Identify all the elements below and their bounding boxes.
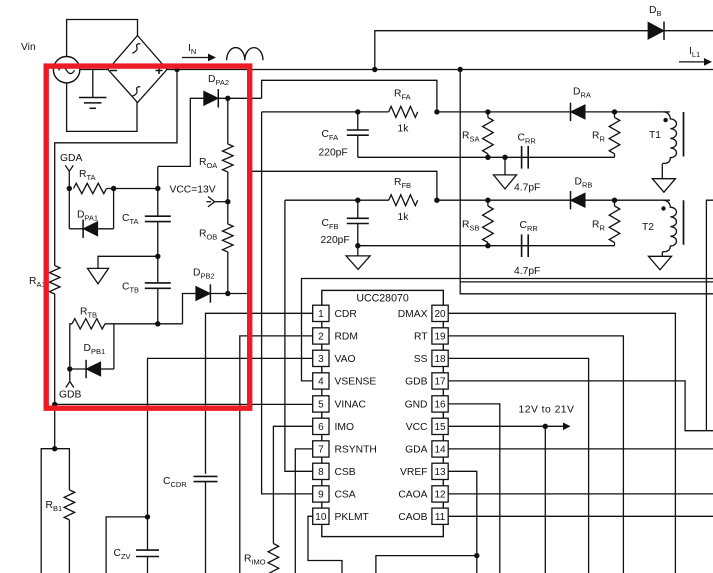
resistor RTA (74, 183, 107, 193)
bridge minus label (110, 70, 117, 72)
ground under CTA (88, 268, 109, 284)
pin 19 RT (432, 328, 448, 344)
svg-text:10: 10 (315, 512, 327, 523)
wire CAOB net (448, 515, 713, 517)
svg-text:CAOA: CAOA (398, 490, 427, 501)
wire row B feed (250, 171, 437, 200)
svg-text:13: 13 (434, 467, 446, 478)
diode DRB (571, 193, 586, 207)
bridge plus label (156, 70, 163, 72)
diode DPA1 (83, 222, 98, 236)
svg-text:VAO: VAO (335, 354, 356, 365)
wire DPA1 left leg (68, 189, 70, 229)
svg-text:19: 19 (434, 332, 446, 343)
ground under T1 (652, 179, 675, 193)
svg-text:T1: T1 (649, 130, 661, 141)
svg-text:VINAC: VINAC (335, 400, 367, 411)
svg-text:CSA: CSA (335, 490, 356, 501)
svg-text:16: 16 (434, 400, 446, 411)
svg-text:GDA: GDA (405, 445, 427, 456)
wire RA1 down to RB1 (54, 404, 56, 448)
wire RSYNTH net (295, 449, 312, 573)
diode DB (648, 22, 664, 39)
svg-text:RSYNTH: RSYNTH (335, 445, 377, 456)
wire VREF net (448, 471, 477, 573)
wire VAO net (148, 358, 313, 517)
wire T1 to ground (661, 164, 663, 179)
svg-text:4.7pF: 4.7pF (514, 266, 540, 277)
wire DPA2 cathode (218, 97, 261, 99)
svg-text:4: 4 (318, 377, 324, 388)
junction CTA bottom (155, 254, 160, 259)
wire RFB row left (285, 199, 389, 201)
capacitor CCDR (194, 475, 218, 477)
junction rail-bridge (174, 67, 179, 72)
capacitor CFA (357, 112, 359, 130)
wire hidden under highlight (249, 171, 251, 293)
svg-text:12: 12 (434, 490, 446, 501)
resistor RB1 (55, 449, 70, 490)
pin 5 VINAC (313, 396, 329, 412)
pin 8 CSB (313, 463, 329, 479)
wire bridge plus drop (55, 70, 177, 266)
junction RTA left (67, 186, 72, 191)
junction rail-DB (372, 67, 377, 72)
wire T2 right branch (706, 200, 713, 431)
svg-text:9: 9 (318, 490, 324, 501)
wire DPA1 connections (69, 228, 83, 230)
svg-text:IMO: IMO (335, 422, 354, 433)
svg-text:7: 7 (318, 445, 324, 456)
bridge rectifier BR1 (108, 36, 167, 103)
pin 18 SS (432, 350, 448, 366)
junction RB1 split (52, 446, 57, 451)
svg-text:6: 6 (318, 422, 324, 433)
wire CAOA net (448, 493, 713, 495)
wire row A top (437, 111, 670, 113)
wire row A bottom (358, 156, 615, 158)
capacitor CFB (357, 200, 359, 218)
svg-text:2: 2 (318, 332, 324, 343)
wire to ground branch (98, 256, 158, 268)
svg-text:1k: 1k (398, 212, 410, 223)
wire VCC net (448, 425, 545, 427)
resistor RIMO (268, 544, 279, 573)
svg-text:1k: 1k (398, 124, 410, 135)
junction ground row A (502, 155, 507, 160)
junction RFA left (355, 109, 360, 114)
svg-text:GDA: GDA (60, 153, 82, 164)
pin 1 CDR (313, 305, 329, 321)
wire VREF branch (376, 556, 477, 573)
svg-text:4.7pF: 4.7pF (514, 183, 540, 194)
wire GDB net (448, 381, 713, 431)
resistor ROB (227, 202, 229, 224)
junction CTB bottom (155, 321, 160, 326)
resistor RSB (483, 206, 494, 243)
svg-text:5: 5 (318, 400, 324, 411)
wire SS net (448, 358, 588, 573)
junction RFB right (434, 198, 439, 203)
pin 12 CAOA (432, 486, 448, 502)
wire VINAC to pin5 (55, 403, 313, 405)
AC source V1 (53, 56, 79, 82)
svg-text:15: 15 (434, 422, 446, 433)
wire main rail (167, 69, 713, 71)
junction CFB bottom (355, 243, 360, 248)
ground under T2 (649, 256, 672, 270)
svg-text:Vin: Vin (21, 42, 36, 53)
wire to diode DB (375, 31, 713, 70)
arrow GDA (65, 165, 69, 171)
resistor RFA (389, 106, 418, 117)
arrow IN (182, 57, 209, 59)
wire DPB2 cathode (210, 293, 250, 295)
diode DPB1 (86, 362, 101, 376)
wire ROB to DPB2 (227, 252, 229, 294)
svg-text:CAOB: CAOB (398, 512, 427, 523)
arrow VCC supply (545, 425, 564, 427)
wire IMO net (273, 426, 312, 543)
wire RSA stubs (487, 112, 489, 118)
inductor L1 (227, 48, 263, 61)
IC U1 UCC28070 body (322, 290, 444, 536)
wire net y282 (460, 281, 713, 283)
svg-text:17: 17 (434, 377, 446, 388)
svg-text:VREF: VREF (400, 467, 427, 478)
arrow IL1 (679, 61, 705, 63)
pin 3 VAO (313, 350, 329, 366)
pin 20 DMAX (432, 305, 448, 321)
svg-text:14: 14 (434, 445, 446, 456)
svg-text:VCC=13V: VCC=13V (170, 185, 216, 196)
wire RTA right (107, 188, 158, 190)
svg-text:CDR: CDR (335, 309, 357, 320)
capacitor CTA (157, 166, 159, 216)
arrow GDB (69, 369, 71, 382)
wire CDR net (206, 313, 313, 474)
highlight box (46, 66, 250, 408)
capacitor CTB (157, 256, 159, 283)
svg-text:DMAX: DMAX (398, 309, 428, 320)
svg-text:3: 3 (318, 354, 324, 365)
pin 14 GDA (432, 441, 448, 457)
capacitor CRR B (521, 234, 523, 257)
wire DPB2 anode (183, 294, 196, 324)
junction RR B top (612, 198, 617, 203)
ground row B (357, 246, 359, 256)
svg-text:SS: SS (414, 354, 428, 365)
pin 4 VSENSE (313, 373, 329, 389)
pin 16 GND (432, 396, 448, 412)
wire ROA to VCC node (227, 172, 229, 202)
junction DPA2-ROA (225, 96, 230, 101)
wire source top loop (67, 20, 138, 57)
wire T2 to ground (661, 252, 663, 256)
wire source to bridge minus (80, 69, 108, 71)
svg-text:1: 1 (318, 309, 324, 320)
wire RFA row left (262, 111, 389, 113)
wire row B bottom (358, 245, 615, 247)
wire PKLMT net (308, 516, 342, 573)
diode DPA2 (204, 91, 219, 105)
junction VINAC node (52, 402, 57, 407)
pin 9 CSA (313, 486, 329, 502)
wire RTB right (105, 323, 183, 325)
transformer T1 (662, 112, 676, 163)
svg-text:18: 18 (434, 354, 446, 365)
junction CTA top (155, 186, 160, 191)
wire RB1 left branch (41, 449, 55, 573)
capacitor CZV (147, 517, 149, 550)
svg-text:20: 20 (434, 309, 446, 320)
phasing dot T1 (663, 118, 667, 122)
diode DRA (571, 105, 586, 119)
wire row B top (437, 199, 670, 201)
svg-text:CSB: CSB (335, 467, 356, 478)
junction CZV split (145, 514, 150, 519)
wire DMAX net (448, 313, 675, 573)
junction DPB2 node (225, 291, 230, 296)
pin 15 VCC (432, 418, 448, 434)
junction RTA right (111, 186, 116, 191)
pin 6 IMO (313, 418, 329, 434)
svg-text:220pF: 220pF (321, 235, 350, 246)
junction DPB1 left (67, 366, 72, 371)
ground row A (504, 157, 506, 175)
wire DPA2 to RFA (262, 80, 437, 112)
svg-text:RT: RT (414, 332, 428, 343)
pin 13 VREF (432, 463, 448, 479)
junction RR A top (612, 109, 617, 114)
transformer T2 (662, 200, 676, 251)
svg-text:11: 11 (435, 512, 446, 523)
junction RSB top (485, 198, 490, 203)
resistor RR A (609, 117, 620, 153)
capacitor CRR A (521, 146, 523, 169)
wire CSA net (262, 112, 313, 494)
resistor ROA (227, 98, 229, 144)
wire VSENSE net (302, 279, 713, 381)
diode DPB2 (196, 286, 211, 300)
wire GND net (448, 404, 500, 573)
wire GDA net (448, 448, 713, 450)
svg-text:GND: GND (405, 400, 428, 411)
wire DPA2 anode (158, 98, 204, 166)
wire RA1 to GDB node (54, 294, 56, 404)
wire VCC down (544, 426, 546, 573)
resistor RSA (483, 117, 494, 153)
resistor RTB (70, 324, 72, 369)
phasing dot T2 (661, 206, 665, 210)
junction VREF branch (474, 553, 479, 558)
svg-text:GDB: GDB (405, 377, 427, 388)
svg-text:VCC: VCC (406, 422, 428, 433)
resistor RA1 (49, 266, 60, 295)
svg-text:GDB: GDB (59, 390, 81, 401)
svg-text:T2: T2 (642, 222, 654, 233)
svg-text:RDM: RDM (335, 332, 358, 343)
resistor RR B (609, 206, 620, 243)
wire rail drop right (460, 70, 713, 294)
svg-text:PKLMT: PKLMT (335, 512, 370, 523)
svg-text:220pF: 220pF (319, 148, 348, 159)
pin 2 RDM (313, 328, 329, 344)
svg-text:UCC28070: UCC28070 (356, 292, 409, 304)
pin 17 GDB (432, 373, 448, 389)
junction RSA bottom (485, 155, 490, 160)
pin 11 CAOB (432, 508, 448, 524)
wire DPB1 connections (70, 368, 86, 370)
wire CZV left branch (106, 517, 147, 573)
ground bridge (earth) (92, 70, 94, 98)
junction VCC pin net (543, 424, 548, 429)
resistor RFB (389, 195, 418, 206)
junction RSB bottom (485, 243, 490, 248)
junction rail-right (458, 67, 463, 72)
pin 7 RSYNTH (313, 441, 329, 457)
svg-text:12V to 21V: 12V to 21V (519, 405, 575, 416)
svg-text:VSENSE: VSENSE (335, 377, 377, 388)
junction RFA right (434, 109, 439, 114)
wire source bottom loop (67, 83, 137, 131)
wire RT net (448, 336, 623, 573)
junction RSA top (485, 109, 490, 114)
svg-text:8: 8 (318, 467, 324, 478)
wire RDM net (240, 336, 313, 573)
junction RFB left (355, 198, 360, 203)
wire CSB net (285, 200, 313, 471)
pin 10 PKLMT (313, 508, 329, 524)
